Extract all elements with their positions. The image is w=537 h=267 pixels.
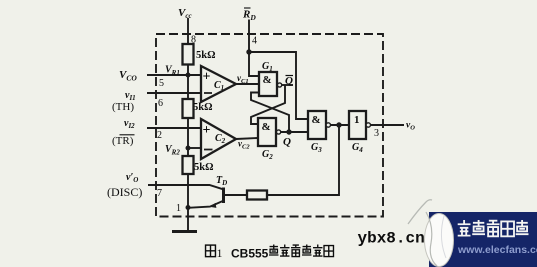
svg-text:&: & <box>263 74 272 86</box>
svg-text:+: + <box>203 70 211 85</box>
svg-text:5kΩ: 5kΩ <box>193 102 213 113</box>
svg-text:5kΩ: 5kΩ <box>194 162 214 173</box>
svg-text:3: 3 <box>374 128 379 139</box>
svg-text:Q: Q <box>285 75 293 87</box>
svg-text:Q: Q <box>283 136 291 148</box>
svg-text:ybx8.cn: ybx8.cn <box>358 230 425 248</box>
svg-text:www.elecfans.com: www.elecfans.com <box>457 244 537 256</box>
svg-text:(DISC): (DISC) <box>107 185 142 199</box>
svg-text:+: + <box>203 123 211 138</box>
svg-text:8: 8 <box>191 35 196 46</box>
svg-text:1: 1 <box>354 114 360 126</box>
svg-text:5: 5 <box>159 78 164 89</box>
svg-text:CB555: CB555 <box>231 247 269 261</box>
svg-text:(TR): (TR) <box>112 135 134 147</box>
svg-text:7: 7 <box>157 188 162 199</box>
svg-text:1: 1 <box>217 246 223 260</box>
svg-text:1: 1 <box>176 203 181 214</box>
svg-text:(TH): (TH) <box>112 101 134 113</box>
svg-text:&: & <box>312 114 321 126</box>
svg-text:2: 2 <box>157 130 162 141</box>
svg-text:6: 6 <box>158 98 163 109</box>
svg-text:&: & <box>262 121 271 133</box>
svg-text:5kΩ: 5kΩ <box>196 50 216 61</box>
svg-text:4: 4 <box>252 36 257 47</box>
